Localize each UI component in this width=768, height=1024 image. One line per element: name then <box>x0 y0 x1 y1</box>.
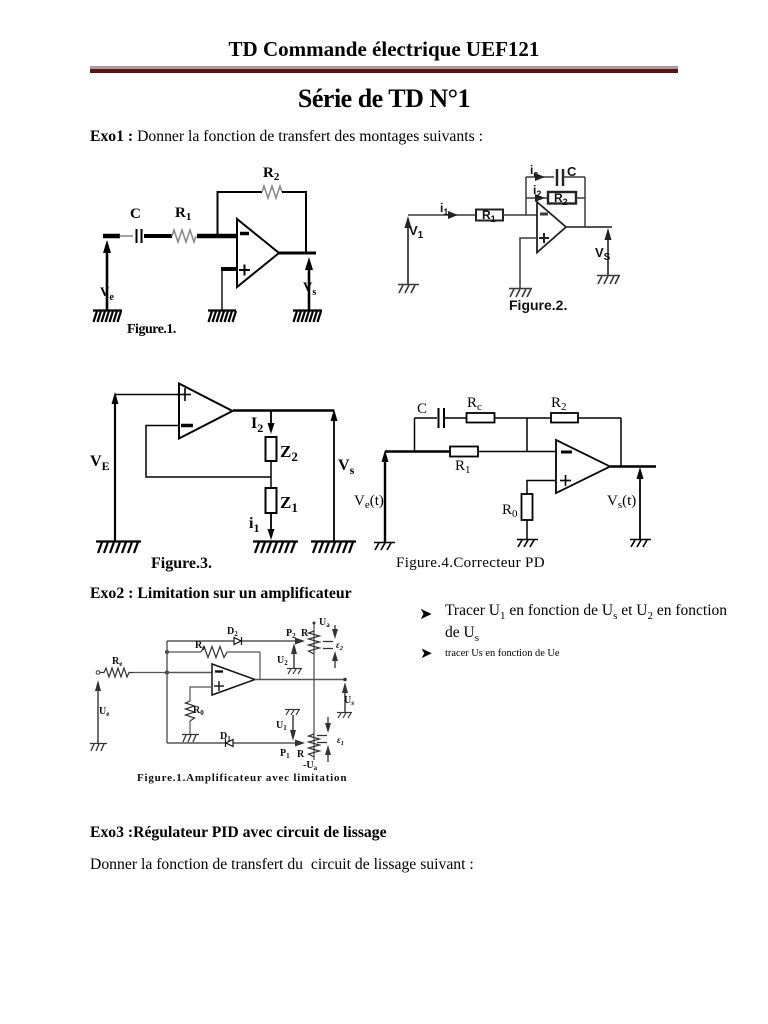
bullet 1 line 1 <box>445 602 727 622</box>
wire R2 to right vertical <box>576 197 585 199</box>
feedback top wire left <box>217 191 263 193</box>
ground (Vs) <box>311 542 356 554</box>
svg-text:i2: i2 <box>533 183 541 199</box>
node column vertical wire <box>166 641 168 743</box>
impedance Z1 box <box>266 488 277 513</box>
bottom wire with D1 <box>167 742 298 744</box>
svg-text:R: R <box>301 628 309 639</box>
svg-text:C: C <box>417 401 427 417</box>
eps2 tick bottom <box>323 648 333 650</box>
svg-text:ε2: ε2 <box>336 640 344 652</box>
input terminal circle <box>96 671 100 675</box>
wire capacitor to right vertical <box>563 176 585 178</box>
svg-text:Z1: Z1 <box>280 493 298 515</box>
eps1 up arrow <box>325 745 331 762</box>
wire capacitor to R1 <box>144 234 172 238</box>
ground (Ve) <box>93 311 122 323</box>
wire VE to plus input <box>115 394 179 396</box>
svg-text:U2: U2 <box>277 655 288 667</box>
svg-text:Vs(t): Vs(t) <box>607 493 636 511</box>
resistor R2 box <box>551 413 578 423</box>
svg-text:Figure.3.: Figure.3. <box>151 555 212 572</box>
op-amp U3 triangle <box>179 384 233 439</box>
svg-text:VE: VE <box>90 453 110 473</box>
output wire <box>255 679 345 681</box>
wire capacitor to Rc <box>444 417 466 419</box>
svg-text:Rc: Rc <box>467 395 482 413</box>
feedback wire from minus input <box>146 426 271 478</box>
ground (Z1) <box>253 542 298 554</box>
wire R1 to op-amp <box>503 214 537 216</box>
bullet 1 line 2 <box>445 624 479 644</box>
ic arrowhead <box>535 173 545 181</box>
header title <box>0 37 768 62</box>
resistor R0 box <box>522 494 533 520</box>
node input bar <box>103 234 120 239</box>
svg-text:R: R <box>297 749 305 760</box>
resistor R2 <box>262 186 282 198</box>
ground (Vs) <box>597 276 620 285</box>
svg-text:R0: R0 <box>193 705 204 717</box>
plus input bar wire <box>221 267 237 271</box>
node vertical wire <box>525 177 527 215</box>
page title <box>0 84 768 114</box>
right feedback vertical <box>584 177 586 227</box>
svg-text:R2: R2 <box>551 395 567 413</box>
top wire to capacitor <box>415 417 438 419</box>
svg-text:Ua: Ua <box>319 617 330 629</box>
eps1 tick bottom <box>317 742 327 744</box>
minus input sign <box>240 232 249 236</box>
potentiometer P2 zigzag <box>309 631 320 654</box>
svg-text:ε1: ε1 <box>337 735 344 747</box>
output wire <box>566 226 612 228</box>
svg-text:Re: Re <box>112 656 122 668</box>
output wire <box>279 252 316 255</box>
Vs arrow <box>305 257 313 310</box>
wire Z2 to node <box>270 461 272 488</box>
Figure 3 : non-inverting amplifier with Z1 Z2 <box>85 375 365 575</box>
resistor Re <box>100 668 133 677</box>
plus input wire <box>527 481 556 495</box>
resistor R1 box <box>450 447 478 457</box>
Rr vertical to output <box>259 652 261 680</box>
top branch vertical left <box>414 418 416 452</box>
svg-text:Figure.1.Amplificateur avec li: Figure.1.Amplificateur avec limitation <box>137 772 347 784</box>
feedback right vertical to output <box>305 191 307 253</box>
svg-text:R2: R2 <box>554 191 568 207</box>
svg-text:Ue: Ue <box>99 706 109 718</box>
VE arrow line <box>112 392 119 541</box>
main input wire <box>385 450 450 452</box>
eps1 down arrow <box>325 717 331 733</box>
top wire with D2 <box>167 640 298 642</box>
op-amp U5 triangle <box>212 664 255 695</box>
Figure 1 : inverting amplifier schematic <box>85 155 330 340</box>
ground (plus input) <box>208 311 236 323</box>
svg-text:V1: V1 <box>409 223 424 241</box>
Figure exo2 : amplifier with limitation <box>85 610 375 785</box>
wire Rr to right vertical <box>227 651 260 653</box>
bullet 1 arrow glyph <box>419 604 432 624</box>
wire R1 to op-amp <box>197 234 237 239</box>
eps2 up arrow <box>332 651 338 668</box>
svg-text:P1: P1 <box>280 748 290 760</box>
exo3 text <box>90 856 474 874</box>
bullet 2 text <box>445 648 560 659</box>
resistor Rc box <box>467 413 495 423</box>
svg-text:-Ua: -Ua <box>303 760 318 772</box>
svg-text:R2: R2 <box>263 165 280 183</box>
feedback vertical wire <box>217 192 219 236</box>
capacitor C1 <box>137 229 142 243</box>
wire Rc to junction <box>495 417 552 419</box>
op-amp U4 triangle <box>556 440 610 493</box>
plus sign <box>177 388 191 401</box>
ground (Vs) <box>293 311 322 323</box>
wire R0 to ground <box>189 721 191 734</box>
ground (V1) <box>398 285 419 294</box>
plus sign <box>560 475 571 486</box>
header rule thin light band <box>90 66 678 69</box>
svg-text:I2: I2 <box>251 415 263 435</box>
svg-text:Figure.1.: Figure.1. <box>127 322 176 337</box>
wire input to capacitor <box>119 235 133 237</box>
exo1 heading <box>90 128 483 146</box>
resistor R0 vertical <box>186 701 195 721</box>
svg-text:C: C <box>130 206 141 222</box>
diode D1 <box>226 739 234 747</box>
wire R0 to ground <box>526 520 528 539</box>
output wire <box>610 465 656 467</box>
U2 arrow <box>291 643 297 668</box>
wire Re to node <box>133 672 167 674</box>
svg-text:R1: R1 <box>455 458 471 476</box>
i2 branch wire <box>526 197 548 199</box>
node dot main <box>165 671 169 675</box>
resistor R2 box <box>548 192 576 204</box>
ground (U2) <box>287 669 302 675</box>
Figure 2 : integrator-like op-amp schematic <box>395 158 625 316</box>
i1 arrow <box>268 513 275 540</box>
I2 arrow <box>268 411 275 435</box>
diode D2 <box>234 637 242 645</box>
wire plus input down to ground <box>221 269 223 310</box>
svg-text:P2: P2 <box>286 628 296 640</box>
ground (R0) <box>182 735 199 743</box>
output wire <box>233 409 334 411</box>
feedback top wire right <box>282 191 307 193</box>
ground (Us) <box>337 713 352 719</box>
resistor R1 box <box>476 210 503 221</box>
minus sign <box>540 213 548 216</box>
resistor Rr <box>201 647 227 658</box>
Ve(t) arrow <box>382 450 389 542</box>
svg-text:D2: D2 <box>227 626 238 638</box>
header rule thick maroon band <box>90 69 678 73</box>
svg-text:Us: Us <box>344 695 354 707</box>
node dot Rr branch <box>165 650 169 654</box>
i2 arrowhead <box>535 194 545 202</box>
op-amp U2 triangle <box>537 202 566 253</box>
Us arrow <box>342 682 348 712</box>
minus sign <box>561 451 572 454</box>
bullet 2 arrow glyph <box>420 644 433 663</box>
ground (Vs) <box>630 540 651 548</box>
ground (VE) <box>96 542 141 554</box>
svg-text:Z2: Z2 <box>280 442 298 464</box>
V1 arrow <box>405 216 412 284</box>
impedance Z2 box <box>266 437 277 461</box>
ground (Ve) <box>374 543 395 551</box>
svg-text:i1: i1 <box>440 201 448 217</box>
exo2 heading <box>90 585 352 603</box>
Vs arrow <box>605 228 612 275</box>
wire R1 to op-amp <box>478 451 556 453</box>
U1 down arrow <box>290 715 296 741</box>
capacitor C <box>439 408 445 428</box>
svg-text:Rr: Rr <box>195 640 205 652</box>
Ue arrow <box>95 680 101 743</box>
ground (plus input) <box>509 289 532 298</box>
Vs arrow line <box>331 409 338 541</box>
ground (R0) <box>517 540 538 548</box>
minus sign <box>181 424 193 428</box>
plus input sign <box>239 265 250 276</box>
minus sign <box>215 670 223 672</box>
svg-text:Figure.2.: Figure.2. <box>509 297 567 313</box>
ic branch wire <box>526 176 554 178</box>
wire node to op-amp minus <box>167 672 212 674</box>
svg-text:i1: i1 <box>249 515 259 535</box>
top terminal dot Ua <box>313 622 316 625</box>
svg-text:ic: ic <box>530 163 538 179</box>
resistor R1 <box>172 230 196 242</box>
eps2 down arrow <box>332 625 338 639</box>
Ve arrow <box>103 240 111 310</box>
potentiometer column vertical <box>313 624 315 760</box>
eps1 tick top <box>317 735 327 737</box>
plus input wire <box>190 687 212 701</box>
capacitor C <box>557 169 563 186</box>
wire R2 to right vertical <box>578 417 621 419</box>
potentiometer P1 zigzag <box>309 734 320 757</box>
i1 arrowhead <box>448 211 458 219</box>
svg-text:D1: D1 <box>220 731 231 743</box>
op-amp U1 triangle <box>237 219 279 287</box>
plus input wire <box>520 238 537 288</box>
plus sign <box>214 681 224 691</box>
ground (Ue) <box>90 744 107 752</box>
Figure 4 : PD corrector schematic <box>350 390 660 575</box>
right vertical to output <box>620 418 622 467</box>
junction vertical <box>526 418 528 452</box>
eps2 tick top <box>323 641 333 643</box>
arrowhead into P1 wiper <box>295 740 305 747</box>
Rr branch wire <box>167 651 201 653</box>
svg-text:R0: R0 <box>502 502 518 520</box>
exo3 heading <box>90 824 387 842</box>
arrowhead into P2 wiper <box>295 638 305 645</box>
svg-text:Figure.4.Correcteur PD: Figure.4.Correcteur PD <box>396 555 545 571</box>
input wire with i1 arrow <box>408 214 476 216</box>
svg-text:R1: R1 <box>175 205 191 223</box>
svg-text:Ve(t): Ve(t) <box>354 493 384 511</box>
Vs(t) arrow <box>637 467 644 539</box>
ground (U1) <box>285 710 300 716</box>
output node dot <box>343 678 347 682</box>
svg-text:U1: U1 <box>276 720 287 732</box>
plus sign <box>539 233 549 243</box>
